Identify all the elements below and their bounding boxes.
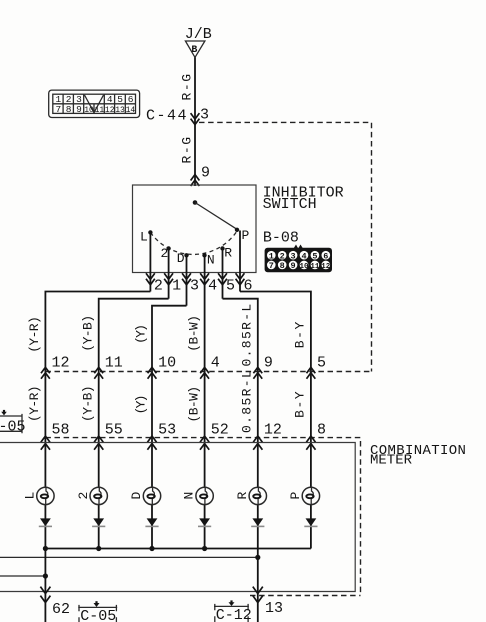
svg-text:(Y-B): (Y-B): [80, 386, 95, 422]
wire from contact D to pin 3: [186, 255, 188, 305]
svg-text:8: 8: [66, 104, 72, 115]
wire R-G from J/B down into inhibitor switch: [194, 57, 196, 186]
svg-text:7: 7: [56, 104, 62, 115]
wire pin6 to column 6: [240, 292, 311, 549]
connector arrow C-44 pin 12: [41, 367, 50, 379]
diode under lamp 2: [92, 518, 105, 526]
svg-text:9: 9: [264, 355, 273, 372]
svg-text:(Y): (Y): [134, 326, 149, 344]
svg-text:C-44: C-44: [146, 108, 188, 125]
connector arrow meter pin 12: [253, 436, 262, 450]
svg-text:8: 8: [280, 261, 285, 271]
svg-text:2: 2: [161, 246, 169, 261]
svg-text:9: 9: [291, 261, 296, 271]
connector arrow meter pin 55: [94, 436, 103, 450]
svg-text:12: 12: [264, 422, 282, 439]
diode under lamp D: [145, 518, 158, 526]
second bus wire to R lamp: [0, 556, 258, 558]
svg-text:D: D: [129, 492, 144, 500]
diode under lamp P: [304, 518, 317, 526]
svg-text:(Y): (Y): [134, 396, 149, 414]
svg-text:R: R: [235, 492, 250, 500]
svg-text:4: 4: [208, 278, 217, 295]
svg-text:12: 12: [321, 263, 331, 271]
wire pin1 to column 2: [99, 299, 169, 549]
wire from contact L to pin 2: [149, 232, 151, 291]
svg-text:0.85R-L: 0.85R-L: [240, 302, 255, 366]
wire pin3 to column 3: [152, 306, 187, 549]
contact 2: [166, 246, 170, 250]
svg-text:13: 13: [265, 600, 283, 617]
svg-text:5: 5: [317, 355, 326, 372]
lamp ground bus: [45, 548, 311, 550]
wire from contact 2 to pin 1: [168, 248, 170, 298]
connector C-05 partial at left: [0, 410, 26, 436]
wire pin2 to column 1: [45, 292, 150, 549]
svg-text:METER: METER: [370, 453, 413, 469]
connector chevrons at C-44 pin 3: [191, 113, 200, 125]
connector arrow C-44 pin 5: [307, 367, 316, 379]
svg-text:2: 2: [280, 251, 285, 261]
svg-text:2: 2: [76, 492, 91, 500]
connector arrow C-44 pin 4: [200, 367, 209, 379]
connector arrow at switch pin 5: [218, 273, 227, 285]
svg-text:1: 1: [269, 251, 274, 261]
svg-text:0.85R-L: 0.85R-L: [240, 369, 255, 433]
svg-text:B-Y: B-Y: [293, 320, 308, 348]
diode under lamp N: [198, 518, 211, 526]
wire pin5 to column 5: [223, 299, 258, 558]
svg-text:11: 11: [310, 263, 320, 271]
inhibitor switch box: [133, 185, 257, 273]
junction dot lamp 2 on bus: [96, 546, 101, 551]
svg-text:9: 9: [76, 104, 82, 115]
svg-text:10: 10: [299, 263, 309, 271]
svg-text:C-05: C-05: [80, 608, 116, 622]
svg-text:-05: -05: [0, 419, 26, 436]
meter inner solid box: [0, 443, 355, 592]
lamp R: [249, 487, 266, 504]
svg-text:B-08: B-08: [263, 229, 299, 246]
stub wire to left: [0, 575, 45, 577]
contact N: [202, 253, 206, 257]
dashed joint line 1: [45, 371, 371, 373]
combination meter dashed boundary: [45, 438, 360, 596]
svg-text:12: 12: [52, 355, 70, 372]
svg-text:7: 7: [269, 261, 274, 271]
wire from contact P to pin 6: [239, 231, 241, 292]
connector C-12 bracket: [214, 600, 252, 622]
lamp P: [302, 487, 319, 504]
svg-text:62: 62: [52, 601, 70, 618]
svg-text:5: 5: [226, 278, 235, 295]
connector arrow C-44 pin 10: [148, 367, 157, 379]
junction block triangle B: [185, 41, 205, 57]
contact L: [148, 230, 152, 234]
junction dot R wire on second bus: [255, 555, 260, 560]
diode under lamp L: [39, 518, 52, 526]
svg-text:(Y-R): (Y-R): [27, 386, 42, 422]
svg-text:N: N: [207, 253, 215, 268]
svg-text:L: L: [23, 492, 38, 500]
junction dot lamp N on bus: [202, 546, 207, 551]
svg-text:L: L: [140, 230, 148, 245]
svg-text:53: 53: [158, 422, 176, 439]
svg-text:52: 52: [211, 422, 229, 439]
svg-text:R-G: R-G: [180, 135, 195, 163]
svg-text:SWITCH: SWITCH: [263, 196, 317, 213]
svg-text:3: 3: [190, 278, 199, 295]
wire column1 exit down: [44, 549, 46, 622]
svg-text:13: 13: [115, 106, 125, 115]
lamp 2: [90, 487, 107, 504]
lamp D: [143, 487, 160, 504]
svg-text:P: P: [288, 492, 303, 500]
connector chevrons at pin 9: [191, 175, 200, 187]
svg-text:N: N: [182, 492, 197, 500]
svg-text:R: R: [224, 245, 232, 260]
svg-text:55: 55: [105, 422, 123, 439]
contact D: [184, 253, 188, 257]
switch contact arc (dashed): [150, 230, 237, 254]
junction dot lamp L on bus: [43, 546, 48, 551]
svg-text:(Y-R): (Y-R): [27, 317, 42, 353]
svg-text:(B-W): (B-W): [186, 386, 201, 422]
connector C-44 pin layout box: [49, 90, 140, 117]
svg-text:10: 10: [158, 355, 176, 372]
connector arrow meter pin 52: [200, 436, 209, 450]
wire from contact R to pin 5: [222, 248, 224, 298]
switch pivot node: [193, 200, 198, 205]
svg-text:3: 3: [200, 107, 209, 124]
svg-text:R-G: R-G: [180, 72, 195, 100]
connector arrow at switch pin 3: [182, 273, 191, 285]
svg-text:(B-W): (B-W): [186, 316, 201, 352]
switch arm: [195, 203, 237, 230]
svg-text:14: 14: [126, 106, 136, 115]
svg-text:C-12: C-12: [216, 607, 252, 622]
exit chevrons pin 13: [253, 587, 263, 603]
svg-text:1: 1: [172, 278, 181, 295]
lamp N: [196, 487, 213, 504]
svg-text:58: 58: [52, 422, 70, 439]
connector C-05 bracket: [78, 601, 117, 622]
svg-text:5: 5: [117, 94, 123, 105]
connector arrow C-44 pin 11: [94, 367, 103, 379]
connector arrow at switch pin 4: [200, 273, 209, 285]
svg-text:8: 8: [317, 422, 326, 439]
svg-text:B: B: [191, 45, 197, 56]
svg-text:10: 10: [84, 106, 94, 115]
wire from contact N to pin 4 down to lamp N: [204, 255, 206, 548]
svg-text:2: 2: [154, 278, 163, 295]
svg-text:4: 4: [107, 94, 113, 105]
connector arrow meter pin 8: [306, 436, 315, 450]
svg-text:11: 11: [95, 106, 105, 115]
connector arrow meter pin 58: [41, 436, 50, 450]
wire R exit down: [257, 557, 259, 622]
svg-text:9: 9: [201, 165, 210, 182]
svg-text:6: 6: [323, 251, 328, 261]
svg-text:4: 4: [211, 355, 220, 372]
junction dot lamp D on bus: [149, 546, 154, 551]
junction dot on column 1 wire: [43, 573, 48, 578]
svg-text:P: P: [242, 228, 250, 243]
connector arrow C-44 pin 9: [253, 367, 262, 379]
svg-text:11: 11: [105, 355, 123, 372]
svg-text:(Y-B): (Y-B): [80, 316, 95, 352]
connector arrow at switch pin 2: [146, 273, 155, 285]
connector arrow at switch pin 6: [236, 273, 245, 285]
B-08 pin layout box: [265, 245, 332, 273]
contact P: [235, 228, 239, 232]
svg-text:3: 3: [291, 251, 296, 261]
contact R: [220, 246, 224, 250]
svg-text:12: 12: [105, 106, 115, 115]
connector arrow meter pin 53: [147, 436, 156, 450]
svg-text:4: 4: [301, 251, 306, 261]
dashed connector link C-44 to right: [199, 122, 372, 371]
svg-text:6: 6: [128, 94, 134, 105]
svg-text:B-Y: B-Y: [293, 390, 308, 418]
svg-text:5: 5: [312, 251, 317, 261]
exit chevrons pin 62: [40, 587, 50, 603]
svg-text:D: D: [177, 251, 185, 266]
turn signal lamp L: [37, 487, 54, 504]
diode under lamp R: [251, 518, 264, 526]
connector arrow at switch pin 1: [164, 273, 173, 285]
